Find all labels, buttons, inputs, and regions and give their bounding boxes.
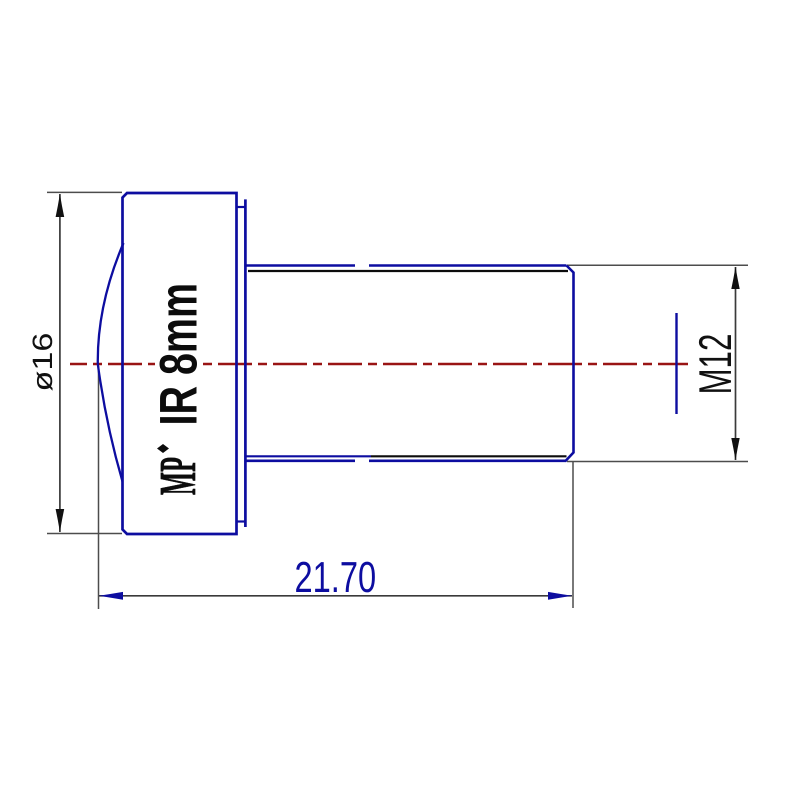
svg-text:M12: M12 (689, 334, 741, 395)
svg-text:21.70: 21.70 (295, 554, 377, 602)
svg-text:MP: MP (150, 457, 207, 495)
svg-text:ø16: ø16 (27, 333, 58, 392)
svg-text:IR 8mm: IR 8mm (150, 283, 209, 426)
